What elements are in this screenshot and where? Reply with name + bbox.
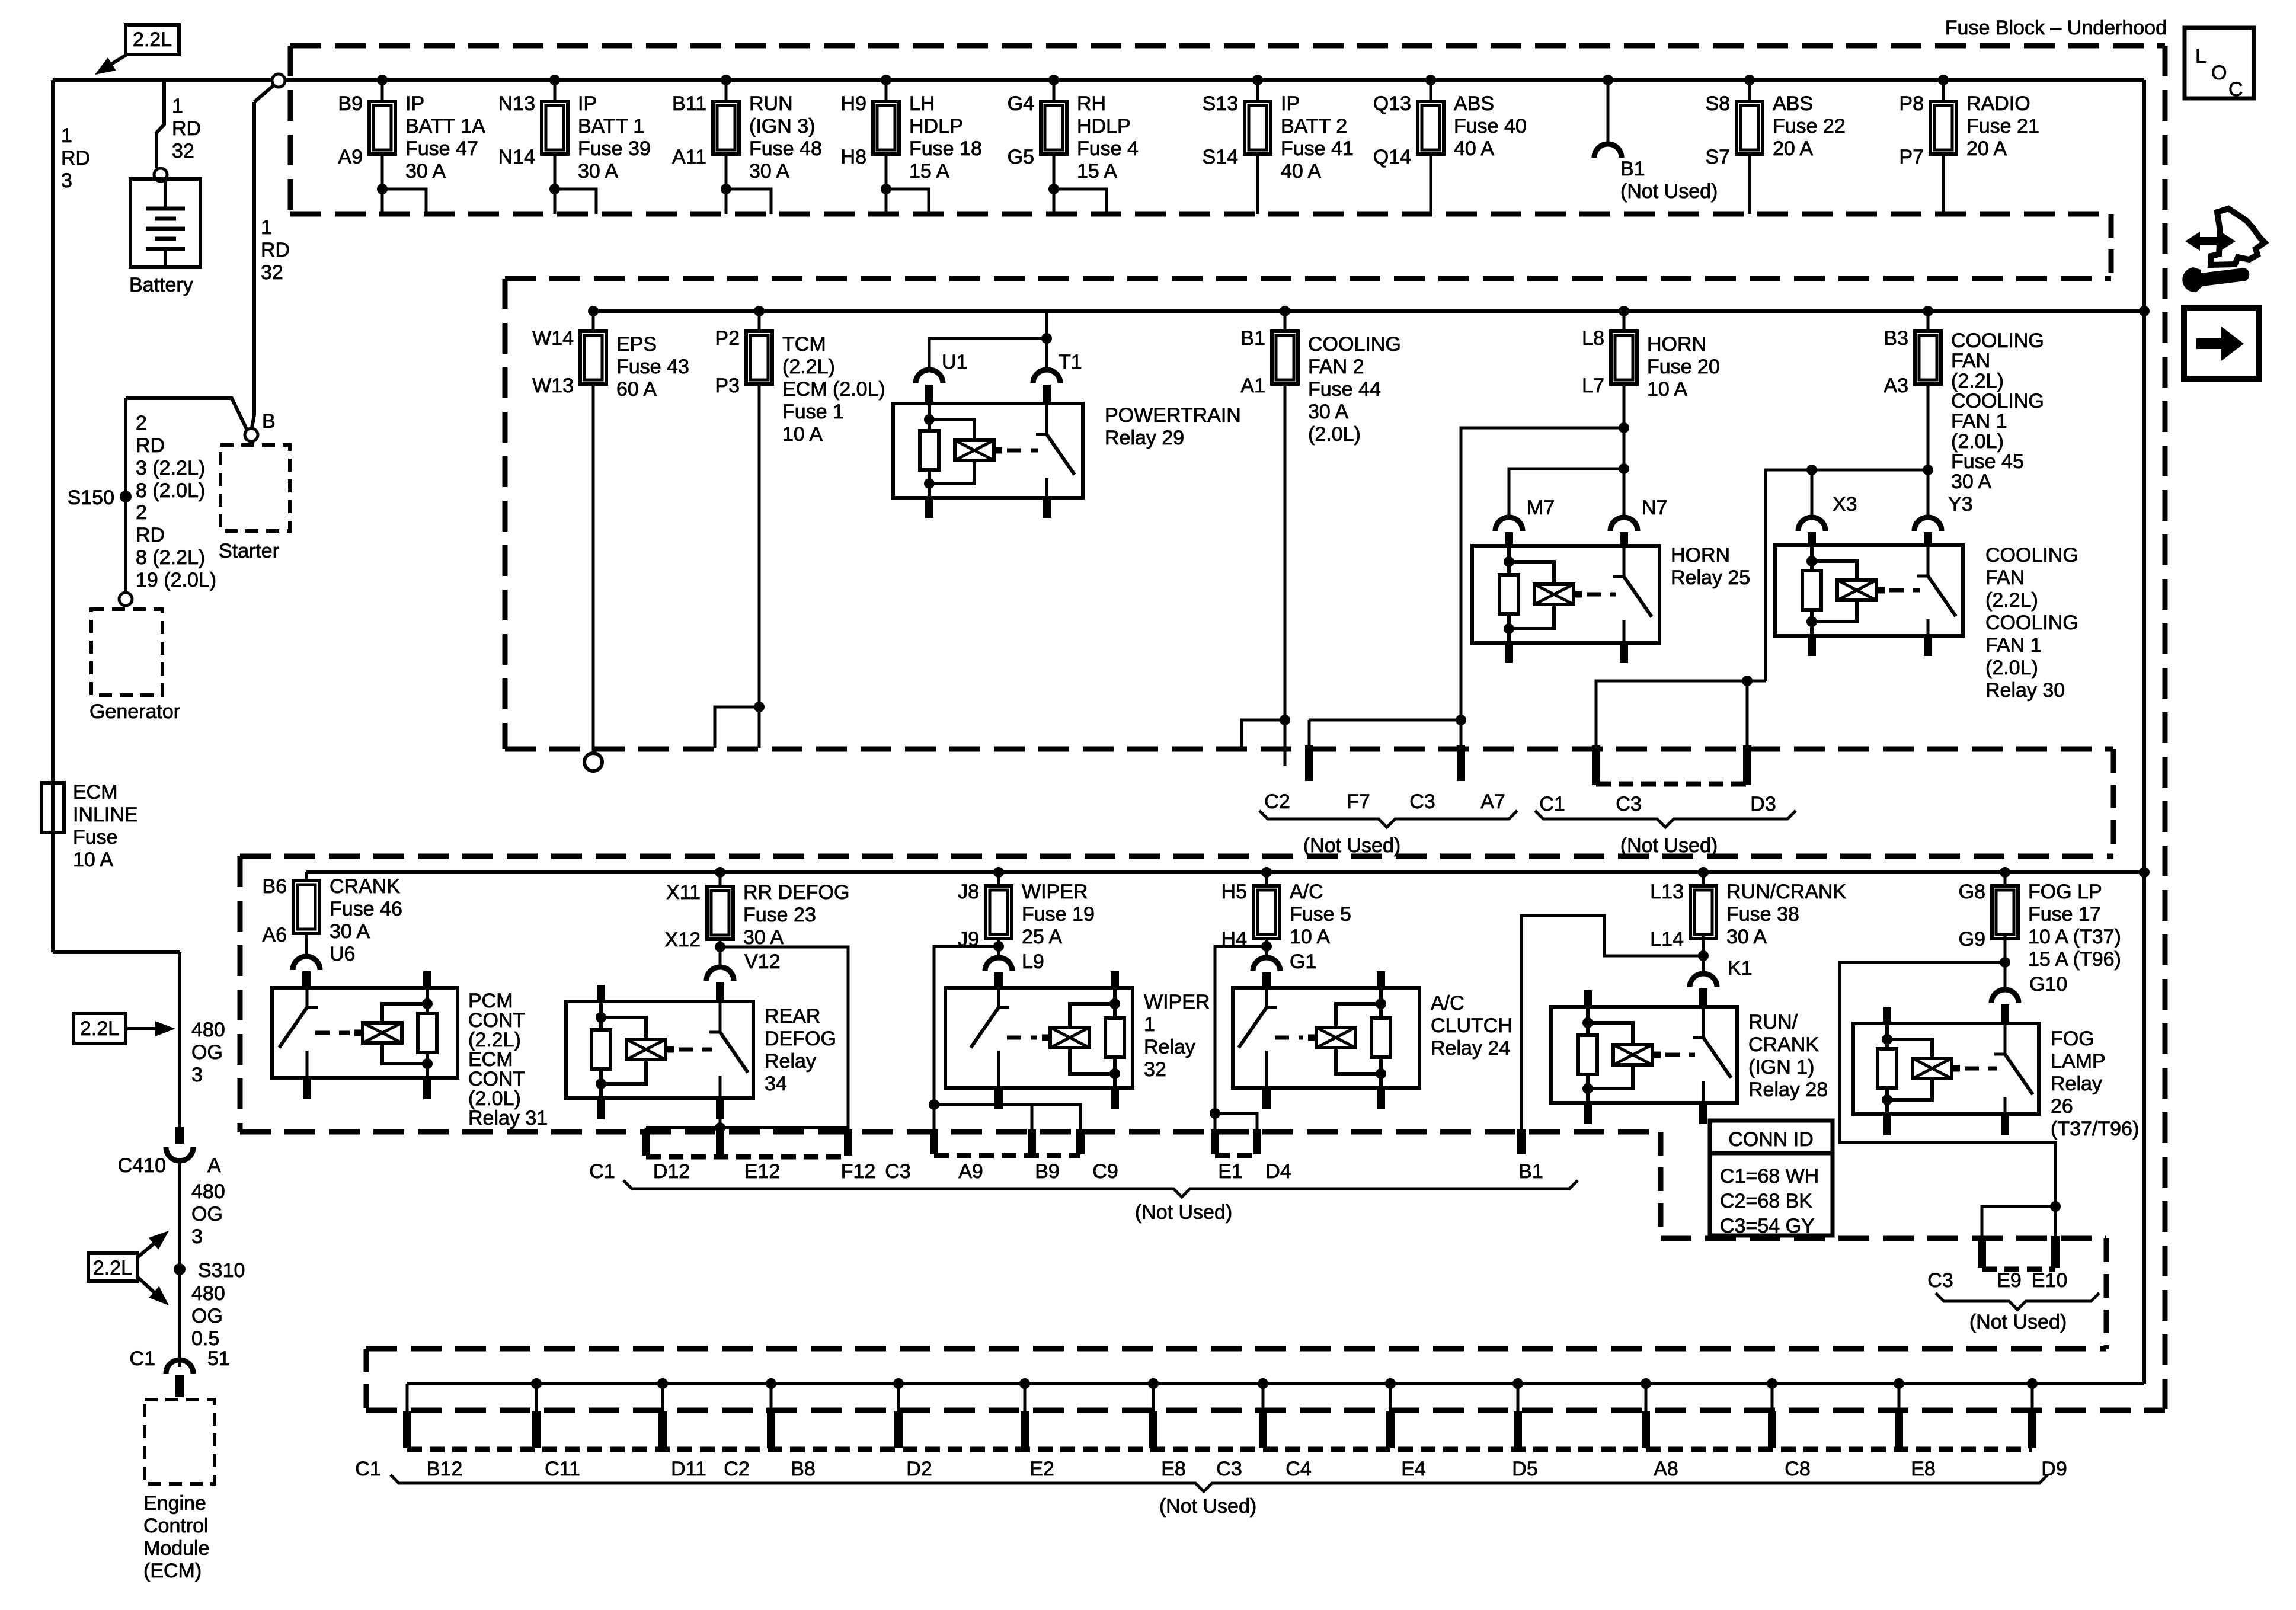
svg-text:C2: C2 xyxy=(724,1458,749,1480)
svg-text:S8: S8 xyxy=(1705,92,1730,115)
svg-text:B1: B1 xyxy=(1518,1160,1543,1183)
node horn relay feed split xyxy=(1619,463,1629,474)
svg-text:D11: D11 xyxy=(671,1458,706,1480)
horn relay bottom pins xyxy=(1505,643,1513,663)
svg-text:Relay: Relay xyxy=(1144,1036,1195,1058)
fuse HORN Fuse 20 10 A xyxy=(1611,331,1637,384)
wire bus2 to fuse HORN xyxy=(1623,311,1626,331)
svg-text:BATT 1: BATT 1 xyxy=(578,115,644,137)
terminal E12 stub xyxy=(716,1129,724,1156)
svg-text:Engine: Engine xyxy=(143,1492,206,1515)
vertical wire 480 OG 3 xyxy=(178,952,181,1127)
svg-text:COOLING: COOLING xyxy=(1985,612,2078,634)
svg-text:8 (2.0L): 8 (2.0L) xyxy=(136,479,205,502)
svg-text:D3: D3 xyxy=(1750,793,1776,815)
svg-text:25 A: 25 A xyxy=(1022,926,1062,948)
wire bus4 terminal drop xyxy=(2031,1384,2034,1413)
svg-text:V12: V12 xyxy=(744,950,781,973)
svg-text:C2=68 BK: C2=68 BK xyxy=(1720,1190,1812,1212)
node bus3-feeder junction xyxy=(2139,867,2150,878)
svg-text:(IGN 3): (IGN 3) xyxy=(749,115,815,137)
terminal E1 stub xyxy=(1211,1129,1219,1154)
svg-text:ECM: ECM xyxy=(73,781,118,804)
svg-text:S13: S13 xyxy=(1203,92,1239,115)
svg-text:L14: L14 xyxy=(1650,928,1684,950)
svg-text:T1: T1 xyxy=(1059,351,1082,373)
terminal stub xyxy=(1514,1411,1522,1448)
svg-text:M7: M7 xyxy=(1527,497,1555,519)
terminal C9 stub xyxy=(1076,1129,1085,1154)
fuse RR DEFOG Fuse 23 30 A xyxy=(707,886,733,939)
connector X3 xyxy=(1798,517,1825,531)
node bus4 tap x1118 xyxy=(657,1378,668,1389)
wire bus4 terminal drop xyxy=(1024,1384,1027,1413)
svg-text:C: C xyxy=(2228,78,2243,101)
svg-text:30 A: 30 A xyxy=(405,160,446,183)
svg-text:Relay 30: Relay 30 xyxy=(1985,679,2065,702)
svg-text:480: 480 xyxy=(191,1019,225,1041)
node wiper output split xyxy=(993,941,1004,952)
svg-text:OG: OG xyxy=(191,1041,223,1064)
svg-text:FAN 1: FAN 1 xyxy=(1985,634,2041,657)
svg-text:CLUTCH: CLUTCH xyxy=(1431,1014,1512,1037)
svg-text:3: 3 xyxy=(61,169,72,192)
terminal stub xyxy=(1021,1411,1029,1448)
node bus4 tap x2346 xyxy=(1385,1378,1396,1389)
svg-text:DEFOG: DEFOG xyxy=(765,1028,836,1050)
relay WIPER 1 Relay 32 xyxy=(945,988,1133,1088)
svg-text:2.2L: 2.2L xyxy=(80,1017,119,1040)
svg-text:C3: C3 xyxy=(1409,790,1435,813)
svg-text:C1: C1 xyxy=(130,1347,155,1370)
node bus2 tap W14 xyxy=(588,306,599,316)
svg-text:FAN: FAN xyxy=(1951,350,1990,372)
svg-text:480: 480 xyxy=(191,1180,225,1203)
svg-text:H9: H9 xyxy=(841,92,866,115)
adjust icon wrench xyxy=(2182,267,2249,292)
node bus3 tap J8 xyxy=(993,867,1004,878)
fuse A/C Fuse 5 10 A xyxy=(1253,886,1280,939)
node bus3 tap L13 xyxy=(1698,867,1709,878)
fog relay bottom pins xyxy=(1883,1114,1891,1135)
svg-text:C410: C410 xyxy=(118,1154,166,1177)
fuse IP BATT 1 Fuse 39 30 A xyxy=(542,101,568,154)
svg-text:U1: U1 xyxy=(942,351,967,373)
svg-text:X3: X3 xyxy=(1833,493,1857,516)
node bus3 tap H5 xyxy=(1261,867,1272,878)
wire fuse Fuse 40 output to block edge xyxy=(1430,154,1432,214)
svg-text:60 A: 60 A xyxy=(616,378,657,401)
svg-text:Starter: Starter xyxy=(219,540,279,562)
fuse box 2 bottom dashed border xyxy=(505,747,2113,752)
fog-lamp not-used sub-box top dashed edge xyxy=(1661,1236,2106,1241)
next page arrow box xyxy=(2184,308,2259,379)
svg-text:(2.2L): (2.2L) xyxy=(1985,589,2038,612)
wire bus3 to fuse WIPER xyxy=(997,872,1000,886)
node powertrain feed split xyxy=(1041,333,1052,344)
svg-text:C3: C3 xyxy=(1216,1458,1242,1480)
svg-text:26: 26 xyxy=(2051,1095,2073,1118)
terminal circle EPS output at block edge xyxy=(584,753,602,771)
bus2 horizontal wire xyxy=(593,309,2144,313)
svg-text:2: 2 xyxy=(136,412,147,434)
svg-text:A3: A3 xyxy=(1884,375,1908,397)
svg-text:20 A: 20 A xyxy=(1773,137,1813,160)
wire wiper branch to A9 xyxy=(934,946,999,1132)
terminal D4 stub xyxy=(1253,1129,1261,1154)
svg-text:30 A: 30 A xyxy=(1951,470,1991,493)
svg-text:(Not Used): (Not Used) xyxy=(1135,1201,1232,1224)
node bus4 tap x1729 xyxy=(1019,1378,1030,1389)
svg-text:A7: A7 xyxy=(1480,790,1505,813)
node B starter terminal xyxy=(245,428,258,441)
relay M7/N7 HORN Relay 25 xyxy=(1472,546,1659,643)
wire ac fuse output xyxy=(1265,937,1268,959)
fuse box 2 top dashed border xyxy=(505,276,2111,281)
svg-text:L7: L7 xyxy=(1582,375,1604,397)
svg-text:S310: S310 xyxy=(198,1259,245,1282)
bus4 horizontal wire xyxy=(407,1382,2144,1385)
svg-text:A6: A6 xyxy=(262,924,287,946)
node D3 tap xyxy=(1742,676,1753,686)
wire F7 drop xyxy=(1308,720,1311,748)
svg-text:RUN/: RUN/ xyxy=(1748,1011,1798,1033)
svg-text:BATT 1A: BATT 1A xyxy=(405,115,485,137)
wire C3/D3 tie xyxy=(1596,681,1766,748)
node bus4 tap x1301 xyxy=(766,1378,776,1389)
2.2L callout box top left xyxy=(126,25,179,55)
node X3 tap xyxy=(1806,465,1817,475)
wire corner to 480 OG 3 drop xyxy=(53,950,180,954)
svg-text:RD: RD xyxy=(136,524,165,546)
wire cooling fan fuse output xyxy=(1927,384,1930,518)
svg-text:32: 32 xyxy=(172,140,194,162)
svg-text:RD: RD xyxy=(172,117,201,140)
defog relay bottom pins xyxy=(597,1098,605,1119)
dashed notch joining box1 bottom to box2 top xyxy=(2109,214,2114,279)
terminal stub xyxy=(658,1411,667,1448)
node C2 output branch xyxy=(1280,715,1290,725)
fuse COOLING FAN (2.2L) COOLING FAN 1 (2.0L) Fuse 45 30 A xyxy=(1915,331,1941,384)
svg-text:Fuse 46: Fuse 46 xyxy=(330,898,402,920)
node bus4 tap x2777 xyxy=(1641,1378,1651,1389)
bracket not used fog xyxy=(1936,1293,2099,1310)
powertrain relay bottom pins xyxy=(925,498,933,518)
wire cooling fan 2 fuse output to C2 terminal xyxy=(1284,384,1287,766)
terminal stub xyxy=(1149,1411,1157,1448)
svg-text:Fuse 45: Fuse 45 xyxy=(1951,450,2024,473)
svg-text:32: 32 xyxy=(1144,1058,1166,1081)
battery terminal circle xyxy=(154,168,167,181)
node ac output split xyxy=(1261,941,1272,952)
svg-text:LAMP: LAMP xyxy=(2051,1050,2106,1073)
svg-text:HDLP: HDLP xyxy=(1077,115,1131,137)
node bus4 tap x1946 xyxy=(1148,1378,1159,1389)
left vertical wire 1 RD 3 xyxy=(51,80,55,952)
wire bus3 to fuse A/C xyxy=(1265,872,1268,886)
outer dashed border - fuse block top edge xyxy=(290,43,2165,49)
svg-text:L9: L9 xyxy=(1022,950,1044,973)
2.2L arrows to S310 wire xyxy=(137,1237,161,1257)
wire TCM fuse output xyxy=(758,384,761,748)
terminal D12 stub xyxy=(642,1129,650,1156)
svg-text:C8: C8 xyxy=(1785,1458,1810,1480)
svg-text:LH: LH xyxy=(909,92,935,115)
svg-text:(2.0L): (2.0L) xyxy=(1951,430,2004,453)
L O C reference box xyxy=(2185,28,2254,98)
svg-text:S150: S150 xyxy=(68,486,114,509)
connector V12 xyxy=(706,967,734,981)
fuse IP BATT 2 Fuse 41 40 A xyxy=(1245,101,1271,154)
svg-text:COOLING: COOLING xyxy=(1985,544,2078,566)
svg-text:Fuse 1: Fuse 1 xyxy=(782,401,844,423)
wiper relay bottom pins xyxy=(994,1088,1003,1109)
svg-text:N13: N13 xyxy=(498,92,535,115)
svg-text:30 A: 30 A xyxy=(743,926,784,949)
wire TCM output branch step xyxy=(715,707,759,748)
wire bus4 terminal drop xyxy=(1152,1384,1155,1413)
relay FOG LAMP Relay 26 xyxy=(1853,1023,2039,1114)
svg-text:30 A: 30 A xyxy=(1308,401,1348,423)
svg-text:40 A: 40 A xyxy=(1454,137,1494,160)
not-used tie strip E1-D4 xyxy=(1215,1153,1257,1158)
right feeder wire bus1 to bus4 xyxy=(2142,80,2146,1384)
svg-text:(Not Used): (Not Used) xyxy=(1303,834,1400,857)
svg-text:Fuse 43: Fuse 43 xyxy=(616,356,689,378)
svg-text:EPS: EPS xyxy=(616,333,657,356)
wire ac branch to E1 xyxy=(1215,946,1267,1132)
wire 480 OG 3 below C410 xyxy=(178,1160,181,1367)
svg-text:1: 1 xyxy=(172,95,183,117)
svg-text:A/C: A/C xyxy=(1290,881,1323,903)
svg-text:IP: IP xyxy=(405,92,424,115)
node fog terminal tie xyxy=(2050,1201,2061,1212)
wire bus4 terminal drop xyxy=(1262,1384,1265,1413)
node A7 junction xyxy=(1456,715,1466,725)
fuse box 1 left dashed edge xyxy=(288,46,293,214)
svg-text:C2: C2 xyxy=(1264,790,1290,813)
wire fuse Fuse 21 output to block edge xyxy=(1942,154,1945,214)
engine control module dashed box xyxy=(145,1400,215,1484)
wire to M7 xyxy=(1509,469,1624,518)
svg-text:C1=68 WH: C1=68 WH xyxy=(1720,1165,1819,1188)
svg-text:CRANK: CRANK xyxy=(1748,1033,1819,1056)
node starter feed tap on bus1 xyxy=(272,74,285,87)
wire bus3 to fuse RUN/CRANK xyxy=(1702,872,1705,886)
svg-text:L13: L13 xyxy=(1650,881,1684,903)
relay A/C CLUTCH Relay 24 xyxy=(1233,988,1419,1088)
wiper relay top coil pin xyxy=(1111,971,1119,988)
wire rr defog fuse output xyxy=(719,938,722,968)
relay PCM CONT / ECM CONT Relay 31 xyxy=(272,988,458,1078)
svg-text:N7: N7 xyxy=(1642,497,1667,519)
node bus2 tap P2 xyxy=(754,306,765,316)
wire bus4 terminal drop xyxy=(535,1384,538,1413)
svg-text:B3: B3 xyxy=(1884,327,1908,350)
not-used tie strip bottom row xyxy=(407,1447,2032,1452)
svg-text:Fuse 39: Fuse 39 xyxy=(578,137,651,160)
svg-text:WIPER: WIPER xyxy=(1022,881,1088,903)
fuse CRANK Fuse 46 30A xyxy=(305,872,308,881)
svg-text:C4: C4 xyxy=(1285,1458,1311,1480)
node bus4 tap x1516 xyxy=(893,1378,904,1389)
svg-text:B8: B8 xyxy=(791,1458,816,1480)
svg-text:A: A xyxy=(207,1154,221,1177)
svg-text:Fuse 41: Fuse 41 xyxy=(1281,137,1354,160)
fuse box 3 bottom dashed border xyxy=(240,1129,1661,1135)
fuse RADIO Fuse 21 20 A xyxy=(1930,101,1956,154)
node cooling fan feed split xyxy=(1923,465,1933,475)
svg-text:REAR: REAR xyxy=(765,1005,820,1028)
svg-text:IP: IP xyxy=(578,92,597,115)
wire bus1 to fuse LH xyxy=(885,80,888,101)
fuse EPS Fuse 43 60 A xyxy=(580,331,606,384)
node bus2 tap B1 xyxy=(1280,306,1290,316)
svg-text:Q13: Q13 xyxy=(1373,92,1411,115)
svg-text:A1: A1 xyxy=(1240,375,1265,397)
node ac terminal tie xyxy=(1210,1108,1220,1119)
node bus4 tap x905 xyxy=(531,1378,542,1389)
fuse FOG LP Fuse 17 10 A (T37) 15 A (T96) xyxy=(1992,886,2018,939)
2.2L callout box mid xyxy=(73,1013,126,1044)
wire bus1 to fuse ABS xyxy=(1430,80,1432,101)
svg-text:E9: E9 xyxy=(1997,1269,2022,1292)
connector U1 xyxy=(916,370,943,383)
CONN ID table xyxy=(1710,1121,1833,1235)
wire to T1 xyxy=(1045,338,1048,371)
ac relay top coil pin xyxy=(1377,971,1385,988)
relay U1/T1 POWERTRAIN Relay 29 xyxy=(893,404,1083,498)
svg-text:A11: A11 xyxy=(672,146,706,168)
svg-text:51: 51 xyxy=(207,1347,230,1370)
svg-text:A/C: A/C xyxy=(1431,992,1464,1014)
fuse box 1 bottom dashed border xyxy=(290,212,2111,217)
outer dashed border - fuse block right edge xyxy=(2163,46,2168,1409)
wire to X3 xyxy=(1811,470,1814,518)
connector T1 xyxy=(1033,370,1060,383)
node bus1 tap S8 xyxy=(1744,75,1755,85)
svg-text:COOLING: COOLING xyxy=(1308,333,1401,356)
svg-text:D4: D4 xyxy=(1265,1160,1291,1183)
terminal stub xyxy=(532,1411,541,1448)
svg-text:2: 2 xyxy=(136,501,147,524)
wire fuse Fuse 22 output to block edge xyxy=(1748,154,1751,214)
svg-text:E2: E2 xyxy=(1029,1458,1054,1480)
svg-text:TCM: TCM xyxy=(782,333,826,356)
wire bus3 to fuse FOG LP xyxy=(2004,872,2007,886)
wire 2 RD to S150 xyxy=(124,398,127,593)
fuse box 2 left dashed edge xyxy=(503,279,508,749)
wire to U1 xyxy=(929,338,1047,371)
connector N7 xyxy=(1610,517,1638,531)
not-used tie strip D12-F12 xyxy=(646,1154,848,1160)
svg-text:WIPER: WIPER xyxy=(1144,991,1210,1013)
svg-text:E1: E1 xyxy=(1218,1160,1243,1183)
pcm relay top coil pin xyxy=(423,971,431,988)
svg-text:E12: E12 xyxy=(744,1160,781,1183)
wire bus4 terminal drop xyxy=(661,1384,664,1413)
svg-text:FOG LP: FOG LP xyxy=(2028,881,2102,903)
svg-text:Fuse 23: Fuse 23 xyxy=(743,904,816,926)
wire bus4 terminal drop xyxy=(1771,1384,1774,1413)
svg-text:B6: B6 xyxy=(262,875,287,898)
wire bus2 to fuse COOLING xyxy=(1927,311,1930,331)
svg-text:HORN: HORN xyxy=(1671,544,1730,566)
svg-text:J8: J8 xyxy=(958,881,979,903)
svg-text:0.5: 0.5 xyxy=(191,1327,219,1350)
svg-text:COOLING: COOLING xyxy=(1951,329,2044,352)
wire bus1 to fuse ABS xyxy=(1748,80,1751,101)
wire EPS fuse output xyxy=(592,384,595,753)
svg-text:Battery: Battery xyxy=(129,274,193,296)
svg-text:2.2L: 2.2L xyxy=(93,1257,132,1279)
svg-text:U6: U6 xyxy=(330,943,355,965)
bracket not used group1 xyxy=(1259,811,1517,827)
svg-text:30 A: 30 A xyxy=(330,920,370,943)
node bus2 tap B3 xyxy=(1923,306,1933,316)
defog relay top coil pin xyxy=(597,985,605,1001)
fuse TCM (2.2L) ECM (2.0L) Fuse 1 10 A xyxy=(746,331,772,384)
svg-text:B: B xyxy=(262,410,276,433)
node S150 splice xyxy=(120,491,132,502)
svg-text:Fuse 21: Fuse 21 xyxy=(1966,115,2039,137)
svg-text:X11: X11 xyxy=(666,881,701,904)
svg-text:Relay 24: Relay 24 xyxy=(1431,1037,1510,1060)
wire bus4 terminal drop xyxy=(1645,1384,1648,1413)
terminal C3 stub group2 xyxy=(1592,745,1600,785)
svg-text:C3: C3 xyxy=(1927,1269,1953,1292)
wire bus4 terminal drop xyxy=(770,1384,773,1413)
svg-text:Fuse 22: Fuse 22 xyxy=(1773,115,1846,137)
wire bus4 terminal drop xyxy=(897,1384,900,1413)
main battery bus wire bus1 xyxy=(53,78,2144,82)
svg-text:(Not Used): (Not Used) xyxy=(1159,1495,1256,1518)
terminal F12 stub xyxy=(844,1129,852,1156)
wire defog branch to F12 xyxy=(720,947,848,1128)
svg-text:480: 480 xyxy=(191,1282,225,1305)
terminal stub xyxy=(1895,1411,1903,1448)
svg-text:F12: F12 xyxy=(841,1160,876,1183)
connector C410 socket xyxy=(166,1147,193,1161)
node bus2 tap L8 xyxy=(1619,306,1629,316)
svg-text:W14: W14 xyxy=(532,327,574,350)
relay X3/Y3 COOLING FAN Relay 30 xyxy=(1775,545,1963,636)
fuse RUN/CRANK Fuse 38 30 A xyxy=(1690,886,1716,939)
node S310 splice xyxy=(174,1263,186,1275)
ac relay bottom pins xyxy=(1262,1088,1271,1109)
bracket not used box3 long xyxy=(623,1180,1578,1197)
wire fuse Fuse 48 output to block edge xyxy=(725,154,728,214)
wire bus1 to fuse IP xyxy=(381,80,384,101)
wire ac terminal tie E1-D4 xyxy=(1215,1113,1257,1132)
svg-text:Relay 31: Relay 31 xyxy=(468,1107,548,1129)
node defog output split xyxy=(715,942,725,952)
svg-text:C1: C1 xyxy=(589,1160,615,1183)
bracket not used group2 xyxy=(1535,811,1796,827)
node bus4 tap x2561 xyxy=(1512,1378,1523,1389)
terminal stub xyxy=(1259,1411,1267,1448)
svg-text:ABS: ABS xyxy=(1773,92,1813,115)
2.2L callout arrow mid xyxy=(126,1027,167,1030)
svg-text:L8: L8 xyxy=(1582,327,1604,350)
svg-text:Fuse 4: Fuse 4 xyxy=(1077,137,1139,160)
fuse box 3 top dashed border xyxy=(240,854,2113,859)
svg-text:FAN 1: FAN 1 xyxy=(1951,410,2007,433)
terminal stub xyxy=(1768,1411,1776,1448)
svg-text:C11: C11 xyxy=(545,1458,580,1480)
wire horn branch to A7 chain xyxy=(1461,428,1624,748)
terminal B1 stub xyxy=(1517,1129,1526,1154)
